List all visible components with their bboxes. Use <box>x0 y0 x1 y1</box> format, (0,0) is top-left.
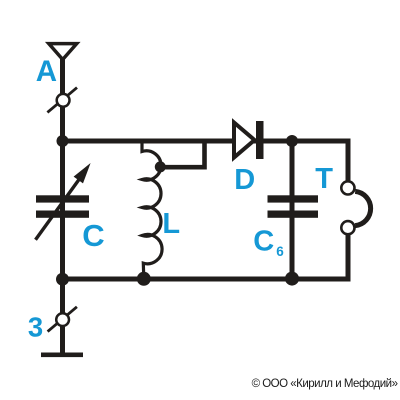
junction node top-left <box>57 135 69 147</box>
svg-text:C: C <box>253 226 274 258</box>
svg-text:L: L <box>162 208 180 240</box>
variable capacitor C <box>36 163 91 240</box>
wire C6 branch <box>290 139 295 280</box>
svg-text:6: 6 <box>276 244 284 259</box>
wire left branch <box>60 139 65 356</box>
connector X1 antenna jack <box>47 88 77 113</box>
junction node diode output <box>286 135 298 147</box>
inductor L <box>142 139 162 279</box>
svg-text:A: A <box>36 55 57 88</box>
wire bottom bus <box>63 277 349 282</box>
svg-text:T: T <box>315 163 333 195</box>
svg-text:C: C <box>82 218 104 253</box>
wire right lower branch <box>346 234 351 282</box>
wire inductor tap <box>160 141 205 167</box>
junction node coil bottom <box>137 272 151 286</box>
svg-text:© ООО «Кирилл и Мефодий»: © ООО «Кирилл и Мефодий» <box>252 378 398 390</box>
headphones T <box>341 181 370 234</box>
label C6 <box>253 226 284 259</box>
wire top bus <box>63 139 349 144</box>
svg-text:D: D <box>234 164 255 196</box>
connector X2 ground jack <box>48 307 77 332</box>
capacitor C6 <box>268 195 319 218</box>
svg-text:3: 3 <box>28 312 43 343</box>
junction node C6 bottom <box>285 272 299 286</box>
diode D <box>234 121 264 159</box>
antenna A <box>49 44 77 60</box>
junction node bottom-left <box>56 273 69 286</box>
wire antenna lead <box>60 58 65 141</box>
ground <box>41 353 83 358</box>
junction tap dot <box>155 161 166 172</box>
wire right upper branch <box>346 139 351 183</box>
